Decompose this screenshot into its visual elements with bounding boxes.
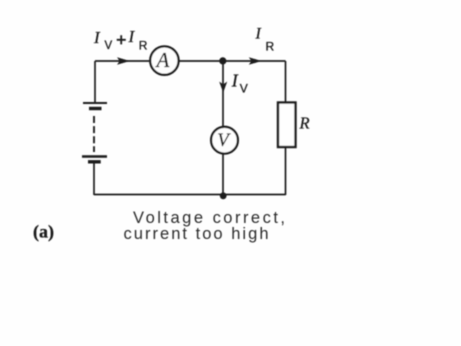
svg-text:A: A <box>155 48 170 72</box>
svg-text:V: V <box>240 81 248 95</box>
svg-text:R: R <box>266 39 275 53</box>
svg-text:R: R <box>299 113 310 132</box>
svg-text:current too high: current too high <box>124 225 269 243</box>
svg-text:(a): (a) <box>33 222 54 243</box>
svg-text:V: V <box>105 40 113 52</box>
svg-text:I: I <box>128 27 136 46</box>
svg-text:R: R <box>139 39 148 53</box>
svg-text:I: I <box>255 25 262 42</box>
svg-text:I: I <box>231 71 239 91</box>
svg-text:I: I <box>93 28 101 47</box>
